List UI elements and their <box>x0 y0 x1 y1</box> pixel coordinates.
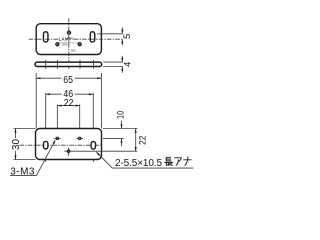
dimension 46 <box>46 93 94 162</box>
slot right bottom view <box>91 142 95 150</box>
bottom view plate outline <box>36 129 102 160</box>
top view plate outline <box>36 24 101 55</box>
M3 hole upper-right bottom view <box>77 137 83 140</box>
leader arrowhead to M3 hole <box>53 139 57 144</box>
svg-text:LAMP: LAMP <box>59 36 72 41</box>
M3 hole upper-left bottom view <box>54 137 60 140</box>
M3 hole lower-center bottom view <box>64 148 137 156</box>
horizontal centerline top view <box>29 38 123 40</box>
hole lower-right M3 <box>77 42 82 47</box>
side view column ticks <box>46 60 94 69</box>
hole top center M3 <box>67 30 72 35</box>
dimension 5 (right of top view) <box>97 27 123 45</box>
dimension 65 <box>36 73 101 129</box>
leader arrowhead to slot <box>95 151 100 156</box>
svg-text:5: 5 <box>122 34 133 39</box>
hole lower-left M3 <box>55 42 60 47</box>
vertical centerline top view <box>68 18 70 69</box>
svg-text:65: 65 <box>63 75 73 86</box>
slot-row horizontal centerline bottom view <box>20 144 102 146</box>
stamp 465 <box>71 49 76 53</box>
svg-text:30: 30 <box>11 139 22 151</box>
dimension 30 (left of bottom view) <box>14 129 36 160</box>
svg-text:10: 10 <box>115 111 125 119</box>
label 2-5.5x10.5 slot with leader <box>115 158 162 169</box>
slot right top view <box>90 32 95 42</box>
label 3-M3 with leader <box>10 166 35 177</box>
dimension 10 (right of bottom view) <box>103 121 138 147</box>
svg-text:JAPAN: JAPAN <box>62 44 69 47</box>
slot left top view <box>43 32 48 42</box>
svg-text:22: 22 <box>64 98 74 109</box>
dimension 22 (right of bottom view) <box>135 129 137 152</box>
slot left bottom view <box>44 141 48 149</box>
svg-text:465: 465 <box>71 49 76 53</box>
dimension 22 (top, between hole columns) <box>57 105 79 149</box>
dimension 4 (right of side view) <box>103 56 123 73</box>
side view strip <box>35 62 102 66</box>
svg-text:22: 22 <box>137 136 148 145</box>
kanji 長 (long) <box>165 157 173 165</box>
katakana ナ <box>184 157 192 166</box>
LAMP logo engraving <box>59 36 81 46</box>
svg-text:2-5.5×10.5: 2-5.5×10.5 <box>115 158 162 169</box>
svg-text:4: 4 <box>122 61 133 67</box>
katakana ア <box>175 158 182 166</box>
